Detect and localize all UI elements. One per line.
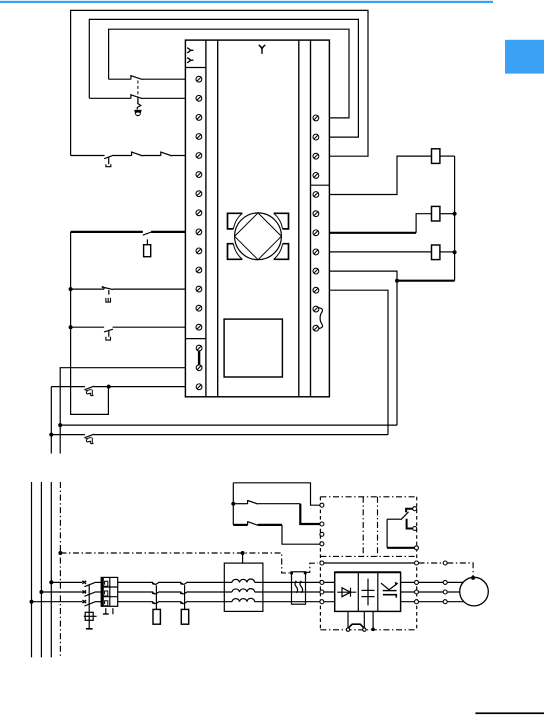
inverter output wire V: [401, 591, 462, 593]
brake terminal stub P: [347, 611, 349, 628]
maker logo circle: [235, 213, 282, 260]
control wire STR: [233, 504, 320, 524]
enclosure internal divider vertical b: [377, 497, 379, 557]
motor frame earth dot: [471, 576, 475, 580]
ground symbol under electrode: [86, 620, 93, 629]
terminal circles motor side: [443, 561, 447, 604]
control wire STF loop: [233, 483, 320, 505]
right strip terminal screws: [313, 115, 319, 331]
contactor MC2 pole 3: [180, 601, 188, 604]
supply bus line R: [31, 482, 33, 657]
motor M: [460, 577, 489, 606]
wire load L2 to bus: [440, 213, 455, 215]
contactor MC2 coil: [181, 609, 188, 624]
filter core squiggle 2: [300, 581, 303, 593]
OCR heater element 3: [103, 601, 107, 606]
mushroom head pushbutton: [134, 99, 141, 117]
contact relay reverse: [248, 521, 258, 525]
chapter tab (blue): [505, 40, 544, 74]
fault relay contact common: [387, 512, 408, 548]
mechanical link (dashed): [137, 81, 139, 99]
wire phase S: [41, 591, 334, 593]
earth branch (dash-dot): [60, 553, 289, 573]
contact with operating device: [143, 232, 152, 257]
contact limit switch b: [104, 329, 113, 340]
wire phase T: [32, 601, 335, 603]
jumper link left strip: [198, 351, 200, 365]
breaker MCCB pole 1: [82, 581, 94, 587]
wire service branch: [59, 425, 61, 453]
filter earth link (dash-dot): [305, 563, 318, 572]
earth wire through enclosure: [324, 562, 415, 564]
fault relay throw NO: [407, 519, 413, 529]
breaker mechanical link: [88, 585, 90, 613]
control bus vertical: [232, 483, 234, 525]
OCR ground mark a: [103, 608, 109, 614]
left rail vertical: [71, 232, 109, 415]
filter shield terminal left: [290, 572, 293, 575]
left terminal strip edge: [205, 40, 207, 397]
noise filter box: [292, 572, 306, 604]
PLC inner body left edge: [217, 40, 219, 397]
overload relay OCR box: [101, 577, 118, 606]
contact NO a: [132, 151, 143, 156]
logo bracket bottom-right: [274, 244, 289, 260]
wire input X1: [89, 97, 185, 99]
brake jumper link: [348, 624, 364, 628]
OCR ground mark b: [112, 608, 114, 614]
reactor winding S: [232, 589, 255, 592]
contactor MC2 pole 1: [180, 582, 188, 585]
contactor MC2 pole 2: [180, 592, 188, 595]
contactor MC1 coil: [153, 609, 160, 624]
wire service supply L: [60, 368, 185, 425]
junction dots upper: [49, 212, 456, 437]
contactor MC2 link: [184, 585, 186, 609]
logo bracket top-left: [228, 213, 243, 229]
filter shield terminal right: [304, 572, 307, 575]
wire output Y2: [329, 251, 431, 253]
jumper wire right strip: [319, 308, 323, 329]
terminal circles brake: [346, 628, 366, 631]
left strip lower divider: [185, 338, 206, 340]
brake terminal stub PR: [363, 611, 365, 628]
wire loop inner: right strip T1 over top to left rail: [109, 29, 349, 118]
wire output Y0: [329, 156, 431, 194]
load L2: [432, 206, 440, 221]
wire input X2 chain: [71, 155, 186, 157]
right strip divider: [311, 184, 330, 186]
fault relay throw NC: [406, 509, 413, 513]
contact NO b: [161, 151, 172, 156]
wire run to inverter a: [60, 424, 397, 426]
contact relay RA2: [84, 434, 94, 444]
PLC controller U1 outline: [185, 40, 329, 397]
wire loop middle: right strip T2 over top to left rail: [89, 19, 358, 137]
load return (thick): [397, 280, 455, 282]
contact relay forward: [248, 500, 258, 504]
reactor winding T: [232, 598, 255, 601]
breaker MCCB pole 3: [82, 600, 94, 606]
right terminal strip edge: [310, 40, 312, 397]
memory cassette box: [224, 319, 282, 377]
switch manual operated: [104, 155, 113, 167]
brake PX dot: [371, 628, 375, 632]
enclosure internal divider vertical a: [362, 497, 364, 557]
IGBT inverter symbol: [381, 582, 398, 598]
connector pin symbol top-left 1: [187, 48, 193, 53]
contact relay RA1: [84, 386, 94, 396]
inverter enclosure (dash-dot): [320, 497, 416, 630]
header rule (blue): [0, 1, 493, 3]
contact limit switch a: [102, 287, 113, 303]
junction dots lower: [30, 502, 245, 604]
inverter output wire U: [401, 581, 466, 583]
contactor MC1 pole 2: [152, 592, 160, 595]
load common bus: [454, 156, 456, 281]
OCR heater element 1: [103, 581, 107, 586]
connector pin symbol top-left 2: [187, 58, 193, 63]
reactor winding R: [232, 579, 255, 582]
DC link capacitor: [362, 579, 375, 606]
contact emergency stop pole 1: [131, 75, 143, 80]
fault relay common wire (thick): [387, 547, 414, 549]
wire output common: [329, 271, 397, 281]
wire load L3 to bus: [440, 251, 455, 253]
wire input X0: [109, 78, 186, 80]
footer rule: [475, 712, 544, 714]
supply bus line S: [40, 482, 42, 657]
left strip connector box divider: [185, 67, 206, 69]
left strip terminal screws: [196, 76, 202, 389]
wire output COM2: [329, 290, 388, 434]
wire output Y1 (thick): [329, 214, 431, 233]
connector Y symbol top center: [259, 45, 266, 54]
contactor MC1 pole 1: [152, 582, 160, 585]
breaker MCCB pole 2: [82, 591, 94, 597]
enclosure internal divider horizontal: [320, 555, 416, 557]
wire loop outer: right strip T3 over top to left rail: [71, 10, 368, 156]
earth electrode symbol: [84, 612, 97, 620]
wire input X3: [71, 288, 186, 290]
supply bus line T: [50, 482, 52, 657]
logo bracket top-right: [274, 213, 289, 229]
terminal circles enclosure right: [413, 507, 419, 604]
contactor MC1 pole 3: [152, 601, 160, 604]
wire phase R: [51, 581, 334, 583]
rectifier diode: [337, 588, 356, 597]
wire latch branch left: [50, 387, 52, 454]
logo bracket bottom-left: [228, 244, 243, 260]
earth wire to motor (dash-dot): [419, 563, 474, 577]
contactor MC1 link: [155, 585, 157, 609]
brake terminal stub PX: [372, 611, 374, 628]
wire input X4: [71, 326, 186, 328]
inverter output wire W: [401, 601, 466, 603]
inverter power unit box: [335, 572, 401, 611]
PLC inner body right edge: [298, 40, 300, 397]
OCR heater element 2: [103, 591, 107, 596]
reactor earth stub: [242, 553, 244, 563]
maker logo diamond: [235, 213, 282, 260]
filter core squiggle 1: [295, 581, 298, 593]
load L1: [432, 149, 440, 164]
contact emergency stop pole 2: [131, 94, 143, 99]
wire latch input: [51, 386, 185, 388]
load L3: [432, 245, 440, 260]
wire run to inverter b: [51, 434, 388, 436]
terminal circles enclosure left: [320, 503, 324, 604]
wire load L1 to bus: [440, 155, 455, 157]
control wire SD: [233, 525, 320, 544]
wire common 24V (thick): [71, 231, 186, 233]
AC reactor box: [224, 563, 263, 611]
earth bus line PE (dash-dot): [59, 482, 61, 657]
wire return down: [396, 281, 398, 425]
